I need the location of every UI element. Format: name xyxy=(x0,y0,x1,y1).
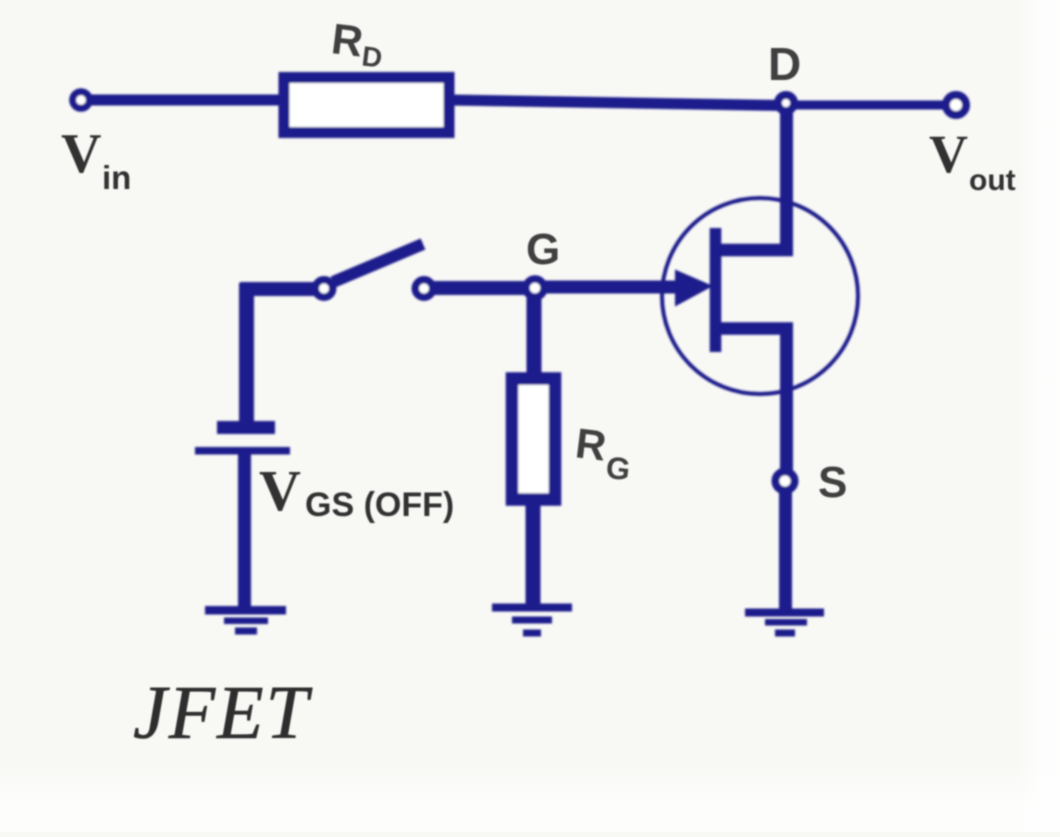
svg-text:V: V xyxy=(61,123,101,185)
svg-text:R: R xyxy=(573,419,609,469)
svg-text:G: G xyxy=(604,450,632,488)
svg-text:D: D xyxy=(360,40,384,73)
svg-text:D: D xyxy=(768,38,801,90)
svg-text:S: S xyxy=(818,458,847,507)
svg-text:V: V xyxy=(259,458,301,523)
svg-text:JFET: JFET xyxy=(133,671,313,755)
svg-text:in: in xyxy=(102,159,131,196)
svg-text:out: out xyxy=(969,164,1016,197)
svg-text:GS (OFF): GS (OFF) xyxy=(305,486,454,524)
svg-text:R: R xyxy=(329,15,366,66)
svg-text:V: V xyxy=(929,124,968,184)
svg-text:G: G xyxy=(526,225,560,274)
